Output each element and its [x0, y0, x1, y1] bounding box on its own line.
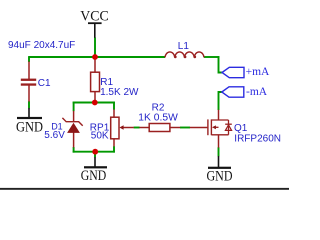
svg-text:Q1: Q1	[234, 123, 248, 134]
source rail	[211, 134, 228, 136]
channel bar	[210, 119, 212, 135]
wire L1 to +mA port	[219, 56, 222, 72]
wire box top	[73, 102, 115, 104]
svg-text:1.5K 2W: 1.5K 2W	[100, 87, 139, 98]
svg-text:GND: GND	[81, 168, 107, 184]
drain pin up	[218, 110, 220, 120]
svg-text:IRFP260N: IRFP260N	[234, 134, 281, 145]
resistor R2 pins	[139, 127, 149, 129]
svg-text:5.6V: 5.6V	[44, 130, 65, 141]
bulk leg with arrow	[216, 126, 219, 128]
port -mA	[222, 86, 268, 98]
junction top	[92, 54, 98, 60]
svg-text:GND: GND	[207, 168, 233, 184]
junction box bottom	[92, 149, 98, 155]
wire box left upper	[73, 102, 75, 112]
body diode	[228, 120, 230, 135]
resistor R1 body	[91, 72, 100, 91]
ground under RP1 box	[81, 157, 107, 184]
svg-text:50K: 50K	[91, 131, 109, 142]
svg-text:1K 0.5W: 1K 0.5W	[138, 113, 178, 124]
drain rail	[211, 119, 228, 121]
wire box left lower	[73, 147, 75, 153]
potentiometer RP1	[111, 109, 134, 146]
wire C1 bottom	[28, 101, 30, 108]
resistor R1 pins	[94, 57, 96, 72]
wire box right lower	[113, 146, 115, 152]
svg-text:+mA: +mA	[246, 66, 270, 78]
svg-text:GND: GND	[16, 119, 43, 135]
source pin down	[218, 135, 220, 148]
port +mA	[222, 66, 270, 78]
sheet edge line	[0, 188, 289, 190]
wire VCC stem lower	[94, 38, 96, 58]
wire main horizontal left	[29, 56, 165, 58]
mosfet Q1	[190, 110, 232, 148]
capacitor C1 plates	[21, 79, 36, 81]
wire -mA port to Q1 drain	[219, 92, 222, 110]
wire wiper to R2	[134, 127, 140, 129]
wire Q1 source lower	[218, 147, 220, 156]
wire box right upper	[113, 102, 115, 110]
resistor R2 body	[149, 124, 170, 132]
wire R2 to gate	[180, 127, 190, 129]
junction below R1	[92, 100, 98, 106]
gate pin	[190, 127, 208, 129]
wire C1 top corner	[28, 56, 30, 62]
svg-text:C1: C1	[38, 78, 51, 89]
svg-text:VCC: VCC	[80, 9, 109, 25]
wire box bottom	[73, 151, 115, 153]
svg-text:94uF 20x4.7uF: 94uF 20x4.7uF	[8, 40, 75, 51]
wire mid-gnd stub	[94, 152, 96, 158]
ground under C1	[16, 108, 43, 135]
capacitor C1 pins	[28, 62, 30, 80]
VCC power port	[80, 9, 109, 38]
inductor L1	[165, 52, 204, 57]
sheet background	[0, 0, 289, 193]
svg-text:L1: L1	[178, 41, 190, 52]
ground under Q1	[207, 156, 233, 184]
gate bar	[207, 119, 209, 135]
wire main horizontal right of L1	[204, 56, 219, 58]
zener diode D1	[62, 111, 82, 147]
svg-text:-mA: -mA	[246, 86, 268, 98]
